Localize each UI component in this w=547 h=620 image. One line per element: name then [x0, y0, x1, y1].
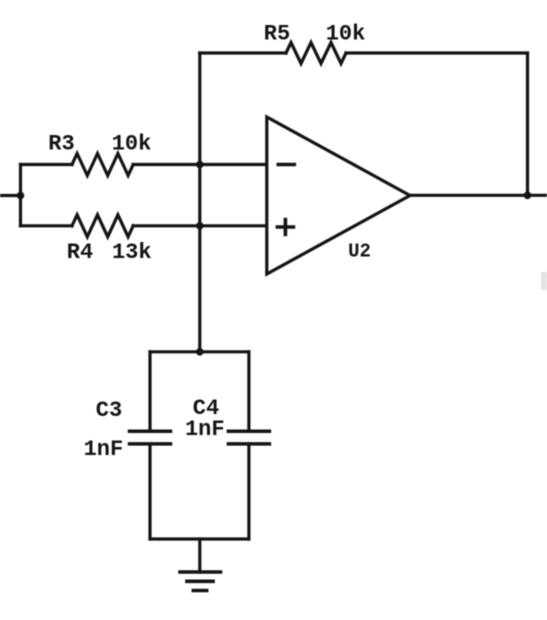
svg-text:10k: 10k: [326, 22, 366, 47]
wire right vertical feedback drop: [526, 53, 529, 195]
wire R5 right lead: [346, 51, 528, 54]
wire capacitor bank bottom rail: [150, 537, 249, 540]
wire center vertical feedback/filter branch: [198, 53, 201, 352]
wire output: [410, 194, 547, 197]
svg-text:1nF: 1nF: [84, 437, 124, 462]
node noninverting input junction: [196, 222, 204, 230]
resistor R4: [72, 215, 133, 237]
svg-text:10k: 10k: [112, 131, 152, 156]
wire C3 top lead: [148, 352, 151, 432]
wire R4 left lead: [21, 224, 73, 227]
wire R3 left lead: [21, 163, 73, 166]
svg-text:R5: R5: [264, 22, 290, 47]
svg-text:R4: R4: [67, 240, 93, 265]
wire R5 left lead: [200, 51, 286, 54]
wire left vertical branch: [19, 165, 22, 226]
wire C4 top lead: [247, 352, 250, 432]
svg-text:U2: U2: [348, 241, 371, 263]
node input junction: [17, 192, 25, 200]
edge artifact smudge: [541, 272, 547, 290]
wire R3 right lead to op-amp: [133, 163, 267, 166]
wire C4 bottom lead: [247, 444, 250, 539]
wire capacitor bank top rail: [150, 350, 249, 353]
node output junction: [524, 192, 532, 200]
node capacitor bank top junction: [196, 348, 204, 356]
resistor R5: [286, 43, 346, 64]
node inverting input junction: [196, 161, 204, 169]
op-amp U2 minus sign: [278, 163, 294, 167]
op-amp U2: [267, 117, 410, 274]
svg-text:R3: R3: [48, 131, 74, 156]
op-amp U2 plus sign: [277, 225, 293, 229]
wire C3 bottom lead: [148, 444, 151, 539]
svg-text:13k: 13k: [112, 240, 152, 265]
wire ground stem: [198, 539, 201, 572]
wire left input stub: [0, 194, 21, 197]
capacitor C4: [228, 430, 269, 434]
resistor R3: [72, 154, 133, 176]
svg-text:1nF: 1nF: [185, 417, 225, 442]
wire R4 right lead to op-amp: [133, 224, 267, 227]
capacitor C3: [130, 430, 171, 434]
ground: [180, 570, 221, 574]
svg-text:C3: C3: [96, 398, 122, 423]
